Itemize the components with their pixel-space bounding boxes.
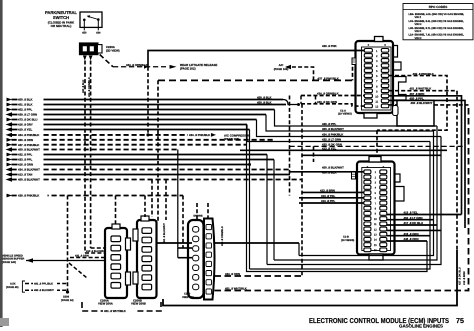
wire 433 .8 PPL row 13: [12, 159, 275, 161]
svg-text:450 .8 BLK/WHT: 450 .8 BLK/WHT: [411, 101, 433, 105]
wrap left riser x246.5: [247, 125, 428, 272]
splice S208 dot: [66, 290, 69, 293]
vertical x289 dashed: [289, 96, 291, 196]
svg-text:434 .8 PNK/BLK: 434 .8 PNK/BLK: [18, 133, 40, 137]
connector face view box: [397, 101, 434, 127]
svg-text:RPO CODES: RPO CODES: [429, 5, 448, 9]
svg-text:439 .8 PPL: 439 .8 PPL: [322, 122, 336, 126]
connector C230 left pins: [193, 227, 199, 233]
wire 434 .8 PNK/BLK row 8: [12, 134, 212, 136]
wire 452 LT GRN pin 10: [387, 219, 434, 221]
ECM connector C2 body: [357, 162, 395, 255]
svg-text:413 .8 YEL: 413 .8 YEL: [321, 194, 335, 198]
wire 416 .8 GRN row 14: [12, 164, 250, 166]
svg-text:(PAGE 166): (PAGE 166): [274, 68, 289, 71]
svg-text:451 .8 WHT/BLK: 451 .8 WHT/BLK: [104, 309, 127, 313]
wire 417 DK BLU pin 11: [387, 224, 437, 226]
svg-text:(PAGE 45): (PAGE 45): [6, 286, 19, 289]
VSS arrow wire: [26, 260, 105, 262]
wire 437 vertical drop: [157, 80, 159, 221]
svg-text:451 .8 WHT/BLK: 451 .8 WHT/BLK: [410, 87, 433, 91]
ECM C1 left pins: [364, 49, 372, 53]
wire 433 feed to pin 12: [301, 104, 364, 106]
vertical x183 dashed: [182, 196, 184, 249]
connector C200A body: [105, 228, 127, 298]
wire 413 PPL to C2 pin 7: [299, 202, 364, 204]
wire 452 .8 PPL row 3: [12, 109, 275, 111]
wire 410 .8 YEL row 7: [12, 129, 250, 131]
svg-text:433 .8 PPL: 433 .8 PPL: [18, 158, 32, 162]
long dashed 451 WHT/BLK: [215, 105, 469, 291]
staircase r5: [257, 120, 442, 137]
wrap left riser x299: [298, 243, 300, 256]
svg-text:439 .8 PNK/BLK: 439 .8 PNK/BLK: [18, 194, 40, 198]
svg-text:450 .8 BLK/WHT: 450 .8 BLK/WHT: [18, 148, 40, 152]
svg-text:413 .8 TAN: 413 .8 TAN: [18, 173, 32, 177]
svg-text:434 .8 ORN/BLK: 434 .8 ORN/BLK: [88, 77, 91, 97]
long solid bottom wire: [163, 250, 457, 306]
svg-text:450 .8 BLK: 450 .8 BLK: [18, 98, 33, 102]
liftgate arrow: [170, 65, 177, 69]
svg-text:(PAGE 202): (PAGE 202): [180, 67, 196, 71]
svg-text:450: 450: [82, 32, 87, 35]
vertical x302 dashed: [301, 104, 303, 276]
svg-text:434 .8 ORN: 434 .8 ORN: [225, 272, 240, 276]
svg-text:451 .8 BLK: 451 .8 BLK: [18, 103, 33, 107]
vertical into C200A top: [115, 196, 117, 226]
RPO codes box: [403, 4, 473, 40]
wire 451 WHT/BLK from pin 10: [389, 91, 457, 250]
svg-text:434 .8 PNK/BLK: 434 .8 PNK/BLK: [322, 133, 344, 137]
svg-text:(19 VIEWS): (19 VIEWS): [341, 239, 354, 242]
wire 432 .8 PPL row 12: [12, 154, 268, 156]
vertical into C200B top 2: [151, 180, 153, 218]
wire 409 PNK/BLK: [377, 76, 447, 131]
svg-text:460 .8 ORN: 460 .8 ORN: [18, 138, 33, 142]
svg-text:ENGINE: ENGINE: [193, 214, 203, 217]
row 8 termination arrow: [211, 133, 216, 137]
wire 413 BRN to C2 pin 5: [302, 191, 364, 193]
svg-text:491 .8 PPL/BLK: 491 .8 PPL/BLK: [34, 283, 53, 286]
svg-text:417 .8 DK BLU: 417 .8 DK BLU: [404, 221, 423, 225]
wire 413 .8 TAN row 16: [12, 174, 291, 176]
mid row 150 extension: [240, 149, 447, 151]
vertical x67 dashed: [67, 196, 69, 293]
svg-text:473 .8 DK BLU: 473 .8 DK BLU: [18, 118, 37, 122]
jog at x315: [315, 96, 317, 104]
svg-text:446 .8 ORN: 446 .8 ORN: [404, 237, 419, 241]
A/C branch wire: [287, 67, 314, 80]
wire 450 BLK vertical: [84, 61, 86, 254]
wire 434 feed to pin 10: [301, 95, 364, 97]
svg-text:VIN N: VIN N: [415, 37, 422, 40]
wire 451 .8 BLK row 2: [12, 104, 287, 106]
wrap left riser x249.5: [249, 130, 251, 270]
wire into C2 pin 1: [290, 171, 364, 173]
AUX bracket: [22, 281, 25, 292]
left page border bar: [0, 0, 3, 327]
wire 413 YEL to C2 pin 6: [299, 197, 364, 199]
svg-text:12: 12: [375, 105, 378, 108]
svg-text:413 .8 YEL: 413 .8 YEL: [404, 211, 418, 215]
svg-text:450 .8 BLK/WHT: 450 .8 BLK/WHT: [18, 178, 40, 182]
svg-text:450 .8 BLK: 450 .8 BLK: [82, 80, 85, 93]
wire 434 to liftgate: [113, 66, 166, 68]
wire 416 .8 GRY row 6: [12, 124, 248, 126]
svg-text:427 .8 DK BLU: 427 .8 DK BLU: [458, 267, 461, 285]
wire row 18: [12, 195, 184, 197]
svg-text:SWITCH: SWITCH: [53, 15, 69, 20]
wire 450 BLK/WHT from pin 12: [389, 104, 397, 106]
wire 460 .8 ORN row 9: [12, 139, 275, 141]
svg-text:VIN H: VIN H: [415, 23, 422, 26]
svg-text:(PAGE 14): (PAGE 14): [61, 299, 74, 302]
wire 450 .8 BLK row 1: [12, 99, 284, 101]
svg-text:VIN Z: VIN Z: [415, 16, 422, 19]
svg-text:439 .8 PNK: 439 .8 PNK: [322, 44, 338, 48]
dashed box around C200: [82, 302, 161, 311]
verticals into C230 top: [196, 203, 198, 221]
staircase r4: [266, 115, 434, 132]
svg-text:413 .8 YEL: 413 .8 YEL: [322, 147, 336, 151]
vertical x166 dashed: [165, 180, 167, 221]
svg-text:416 .8 GRN: 416 .8 GRN: [18, 163, 33, 167]
connector C230 right pins: [206, 225, 212, 230]
svg-text:410 .8 BLK/WHT: 410 .8 BLK/WHT: [86, 250, 106, 253]
wire 450 .8 BLK/WHT row 11: [12, 149, 179, 151]
svg-text:VIEW 230: VIEW 230: [182, 296, 194, 299]
wrap column x433.5: [299, 131, 434, 256]
svg-text:+: +: [366, 165, 368, 169]
wire 410 pin 12: [387, 229, 441, 231]
svg-text:(2D VIEW): (2D VIEW): [106, 48, 120, 52]
svg-text:432 .8 LT GRN: 432 .8 LT GRN: [322, 138, 341, 142]
C1 left key tab: [352, 58, 356, 65]
junction dot on 439/434 crossing: [146, 133, 149, 136]
wire 434 .8 BLK/WHT row 15: [12, 169, 291, 171]
svg-text:409 .8 PNK/BLK: 409 .8 PNK/BLK: [413, 72, 435, 76]
svg-text:450 .8 PPL: 450 .8 PPL: [410, 96, 424, 100]
wire 434 ORN/BLK vertical: [90, 61, 92, 249]
svg-text:11: 11: [375, 100, 378, 103]
AUX wire 1: [25, 283, 68, 285]
C220 pin 2 arrow: [89, 56, 93, 61]
AUX wire 2: [25, 289, 68, 291]
wrap column x441: [267, 137, 441, 265]
wire into C230 left a: [178, 247, 192, 249]
svg-text:434: 434: [96, 32, 101, 35]
connector C200B body: [137, 220, 157, 298]
wrap left riser x274: [273, 160, 275, 261]
svg-text:VIN K: VIN K: [415, 30, 422, 33]
long dashed 434 ORN: [215, 275, 303, 277]
svg-text:(PAGE 140): (PAGE 140): [2, 261, 16, 264]
svg-text:450 .8 BLK: 450 .8 BLK: [257, 96, 272, 100]
svg-text:451 .8 BLK/WHT: 451 .8 BLK/WHT: [163, 223, 166, 243]
svg-text:452 .8 LT GRN: 452 .8 LT GRN: [404, 216, 423, 220]
svg-text:A/C: A/C: [279, 64, 284, 67]
svg-text:+: +: [384, 43, 386, 47]
staircase r6: [247, 125, 430, 142]
wire 450 PPL from pin 12: [389, 100, 465, 228]
wire 434 drop to row 8: [147, 67, 149, 135]
wrap column x437: [274, 126, 437, 260]
row 1 staircase: [283, 100, 299, 105]
svg-text:10: 10: [375, 95, 378, 98]
svg-text:450 .8 BLK: 450 .8 BLK: [257, 101, 272, 105]
svg-text:413 .8 PPL: 413 .8 PPL: [321, 199, 335, 203]
svg-text:493 .8 BLK/WHT: 493 .8 BLK/WHT: [34, 289, 54, 292]
mid h146 dashed: [290, 145, 466, 147]
svg-text:434 .8 PNK/BLK: 434 .8 PNK/BLK: [189, 133, 211, 137]
svg-text:VIEW 200A: VIEW 200A: [98, 302, 113, 306]
wire C230 right y243: [215, 242, 300, 244]
C220 pin 1 arrow: [83, 56, 87, 61]
svg-text:437 .8 PNK/BLK: 437 .8 PNK/BLK: [18, 143, 40, 147]
svg-text:410 .8 YEL: 410 .8 YEL: [18, 128, 32, 132]
wire 437 PNK/BLK: [158, 79, 353, 81]
vertical x178 solid: [177, 150, 179, 258]
switch S1 box: [80, 12, 102, 27]
wire 439 PNK: [148, 51, 364, 67]
svg-text:450 .8 BLK/WHT: 450 .8 BLK/WHT: [322, 127, 344, 131]
svg-text:432 .8 PPL: 432 .8 PPL: [18, 153, 32, 157]
svg-text:GASOLINE ENGINES: GASOLINE ENGINES: [399, 324, 443, 329]
wrap left riser x267: [266, 155, 268, 265]
vertical into C200B top: [144, 196, 146, 218]
wire 457 BRN from pin 11: [389, 96, 462, 215]
svg-text:+: +: [382, 165, 384, 169]
ECM connector C1 body: [356, 41, 394, 113]
svg-text:439 .8 LT GRN: 439 .8 LT GRN: [18, 113, 37, 117]
svg-text:VIEW 200B: VIEW 200B: [131, 302, 146, 306]
wire 437 .8 PNK/BLK row 10: [12, 144, 247, 146]
vertical x313 dashed short: [313, 146, 315, 162]
svg-text:437 .8 PNK/BLK: 437 .8 PNK/BLK: [318, 77, 340, 81]
svg-text:450 .8 BLK/WHT: 450 .8 BLK/WHT: [322, 166, 344, 170]
ECM C2 left pins: [364, 170, 371, 174]
wrap column x430: [250, 142, 431, 270]
wires into C200A: [85, 252, 105, 254]
row 14 junction dot: [248, 163, 251, 166]
connector C200A slots: [111, 236, 121, 242]
svg-text:75: 75: [456, 317, 464, 325]
svg-text:419 .8 BRN: 419 .8 BRN: [463, 271, 466, 285]
connector C230 right half: [204, 219, 215, 300]
svg-text:(PAGE 166): (PAGE 166): [224, 137, 239, 141]
svg-text:416 .8 GRY: 416 .8 GRY: [18, 123, 33, 127]
svg-text:431 .8 GRN: 431 .8 GRN: [75, 255, 89, 258]
wire 416 GRN pin 13: [387, 235, 430, 237]
svg-text:434 .8 ORN/BLK: 434 .8 ORN/BLK: [221, 226, 224, 246]
svg-text:451 .8 WHT/BLK: 451 .8 WHT/BLK: [225, 287, 248, 291]
wire 437 riser to pin 3: [352, 61, 354, 81]
svg-text:457 .8 BRN: 457 .8 BRN: [410, 92, 425, 96]
svg-text:434 .8 BLK/WHT: 434 .8 BLK/WHT: [18, 168, 40, 172]
jog at x301: [300, 96, 302, 104]
wire 446 ORN pin 14: [387, 240, 427, 242]
svg-text:+: +: [367, 43, 369, 47]
wire 434 branch diagonal: [100, 55, 113, 67]
wire 473 .8 DK BLU row 5: [12, 119, 257, 121]
svg-text:452 .8 PPL: 452 .8 PPL: [18, 108, 32, 112]
connector C220: [80, 44, 97, 55]
svg-text:(19 VIEWS): (19 VIEWS): [338, 113, 352, 116]
svg-text:416 .8 GRN: 416 .8 GRN: [404, 232, 419, 236]
svg-text:OR NEUTRAL): OR NEUTRAL): [51, 24, 72, 28]
connector C230 left half: [188, 220, 204, 298]
svg-text:413 .8 BRN: 413 .8 BRN: [320, 189, 335, 193]
wire into C230 left b: [178, 257, 192, 259]
wire 413 YEL pin 9: [387, 214, 462, 216]
splice diagonal: [69, 263, 87, 278]
junction arrow on 434: [144, 65, 149, 69]
wire 439 .8 LT GRN row 4: [12, 114, 267, 116]
mid row 155 extension: [302, 154, 441, 156]
svg-text:434 .8 ORN/BLK: 434 .8 ORN/BLK: [317, 92, 340, 96]
connector C200B slots: [142, 228, 152, 234]
staircase r3: [275, 110, 438, 127]
svg-text:433 .8 DK GRN: 433 .8 DK GRN: [317, 100, 337, 104]
C2 left key tab: [352, 172, 356, 179]
bottom-left gray mark: [0, 318, 9, 326]
wire C200B to C230: [156, 242, 192, 244]
wire 450 .8 BLK/WHT row 17: [12, 179, 303, 181]
switch S1 contacts: [83, 19, 86, 22]
